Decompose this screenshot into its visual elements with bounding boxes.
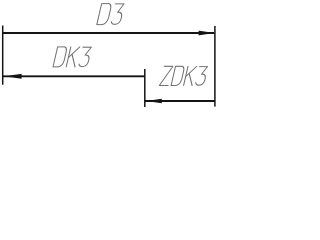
extension line middle	[144, 69, 146, 107]
extension line left	[2, 26, 4, 85]
extension line right	[214, 26, 216, 107]
arrow ZDK3 left	[146, 99, 162, 104]
label DK3	[53, 47, 92, 67]
dimension line DK3	[2, 75, 145, 77]
dimension line ZDK3	[145, 100, 215, 102]
label D3	[97, 4, 125, 25]
label ZDK3	[159, 66, 208, 85]
arrow DK3 left	[3, 74, 21, 79]
arrow D3 right	[199, 31, 215, 36]
dimension line D3	[2, 32, 214, 34]
